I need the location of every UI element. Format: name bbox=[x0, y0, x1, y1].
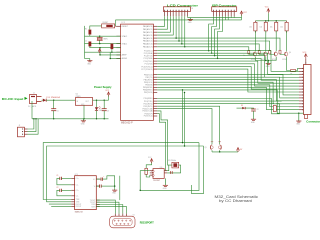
svg-text:Connector: Connector bbox=[306, 119, 320, 123]
junction PA7 staircase bbox=[184, 46, 185, 47]
transistor Q1 bbox=[253, 52, 256, 55]
wire C3 to gnd rail bbox=[103, 111, 105, 119]
svg-text:MEGA32-P: MEGA32-P bbox=[121, 121, 133, 124]
svg-text:78M05: 78M05 bbox=[75, 96, 80, 98]
connector SV2 pin 2 bbox=[216, 10, 217, 11]
IC1 right pin stub PA4(ADC4) bbox=[153, 37, 157, 39]
svg-text:PC3(TMS): PC3(TMS) bbox=[144, 58, 153, 60]
svg-text:DC-DC Input: DC-DC Input bbox=[2, 97, 24, 101]
junction rail col2 bbox=[275, 20, 276, 21]
IC1 right pin stub PC2(TCK) bbox=[153, 55, 157, 57]
wire regulator output bbox=[93, 99, 109, 101]
power VCC arrow near crystal bbox=[98, 49, 101, 52]
wire AGND row bbox=[85, 51, 121, 53]
wire input into base resistor Q2 bbox=[269, 49, 271, 52]
capacitor C8 plates bbox=[251, 108, 256, 110]
wire bus row 13 to card pin15 bbox=[157, 87, 299, 109]
svg-text:PB7(SCK): PB7(SCK) bbox=[144, 92, 153, 94]
svg-text:PA7(ADC7): PA7(ADC7) bbox=[143, 46, 153, 49]
connector J2 pin 3 bbox=[22, 134, 23, 135]
svg-text:C8: C8 bbox=[257, 109, 259, 111]
wire bus row 6 to card pin8 bbox=[157, 67, 299, 89]
wire cap to gnd bbox=[253, 111, 255, 117]
wire XTAL rail A bbox=[85, 35, 121, 37]
svg-text:XTAL1: XTAL1 bbox=[122, 42, 128, 45]
DC input arrowhead bbox=[25, 97, 28, 100]
connector J4 pin 5 bbox=[299, 79, 304, 81]
wire R3 to AREF row bbox=[90, 46, 121, 48]
IC3 right pin V+ bbox=[96, 178, 99, 180]
junction crystal rail A bbox=[99, 35, 100, 36]
svg-text:PC7(TOSC2): PC7(TOSC2) bbox=[141, 69, 153, 71]
wire input cap to gnd rail bbox=[53, 111, 55, 119]
wire PD5 to RTC crystal node bbox=[157, 111, 169, 165]
junction J2 rail b bbox=[35, 118, 36, 119]
connector J4 pin 9 bbox=[299, 91, 304, 93]
wire LCD pin8 to PA7 bbox=[157, 16, 185, 47]
junction PA5 staircase bbox=[178, 40, 179, 41]
wire bus row 12 to card pin14 bbox=[157, 85, 299, 107]
svg-text:PA4(ADC4): PA4(ADC4) bbox=[143, 37, 153, 40]
svg-text:C2+: C2+ bbox=[76, 190, 79, 192]
wire long pair to MAX232 T2IN bbox=[47, 146, 204, 202]
svg-text:AREF: AREF bbox=[122, 54, 128, 57]
wire vertical to RTC rail bbox=[140, 143, 199, 191]
connector X1 DB9 pin 9 bbox=[128, 223, 129, 224]
connector SV1 pin 5 bbox=[176, 10, 177, 11]
resistor base R21 bbox=[258, 50, 260, 54]
svg-text:PA0(ADC0): PA0(ADC0) bbox=[143, 25, 153, 28]
junction ISP pin1 row bbox=[208, 50, 209, 51]
svg-text:32.768kHz: 32.768kHz bbox=[168, 160, 176, 162]
wire bus row 7 to card pin9 bbox=[157, 69, 299, 92]
junction emitter rail1 bbox=[265, 60, 266, 61]
svg-text:R2OUT: R2OUT bbox=[76, 206, 82, 208]
wire base R20 to base bbox=[249, 53, 254, 56]
wire ISP pin2 to PC1 row bbox=[212, 16, 217, 53]
connector J4 pin 10 bbox=[299, 94, 304, 96]
resistor R3 bbox=[89, 42, 92, 47]
IC1 right pin stub PD0(RXD) bbox=[153, 98, 157, 100]
svg-text:IC4: IC4 bbox=[160, 167, 163, 169]
wire bus row 10 to card pin12 bbox=[157, 80, 299, 101]
IC1 left pin stub y43.6 bbox=[116, 43, 120, 45]
wire left bus to gnd bbox=[85, 58, 90, 60]
connector SV1 LCD body bbox=[163, 7, 190, 12]
wire jack to diode bbox=[42, 99, 43, 101]
IC1 right pin stub PB1(T1) bbox=[153, 76, 157, 78]
wire LED to gnd rail bbox=[96, 111, 98, 119]
IC3 left pin R2OUT bbox=[71, 205, 74, 207]
connector X1 DB9 pin 1 bbox=[114, 220, 115, 221]
wire t-pair rail bbox=[212, 151, 238, 153]
wire base R22 to base bbox=[270, 53, 275, 56]
diode D2 bbox=[242, 107, 245, 109]
power VCC arrow RTC bbox=[150, 159, 153, 162]
junction J2 rail a bbox=[33, 118, 34, 119]
connector X1 DB9 pin 6 bbox=[116, 223, 117, 224]
power VCC arrow card connector bbox=[304, 54, 307, 57]
junction pair tap2 bbox=[184, 145, 185, 146]
svg-text:C1: C1 bbox=[56, 175, 58, 177]
wire XTAL rail B bbox=[85, 43, 121, 45]
junction LED bbox=[96, 99, 97, 100]
wire emitter rail to gnd bbox=[267, 61, 269, 63]
connector J4 pin 13 bbox=[299, 103, 304, 105]
svg-text:PC2(TCK): PC2(TCK) bbox=[144, 55, 153, 57]
connector J4 pin 2 bbox=[299, 70, 304, 72]
wire C1 to C1- pin bbox=[57, 178, 71, 184]
capacitor C1 plates bbox=[59, 177, 61, 180]
junction input cap bbox=[53, 99, 54, 100]
ground symbol left bus bbox=[89, 59, 91, 61]
IC1 right pin stub PA2(ADC2) bbox=[153, 31, 157, 33]
wire to VCC arrow right of ISP bbox=[241, 15, 243, 20]
ground symbol power supply bbox=[82, 119, 84, 121]
connector SV1 pin 4 bbox=[173, 10, 174, 11]
transistor Q3 bbox=[274, 52, 277, 55]
transistor Q2 bbox=[264, 52, 267, 55]
resistor R10 pullup bbox=[254, 22, 257, 31]
connector SV2 pin 6 bbox=[228, 10, 229, 11]
IC1 right pin stub PD6(ICP) bbox=[153, 113, 157, 115]
svg-text:AGND: AGND bbox=[122, 57, 128, 60]
wire C1 to C1+ pin bbox=[61, 177, 71, 179]
transistor Q6 bbox=[219, 146, 222, 149]
wire T1OUT to DB9 bbox=[96, 200, 115, 214]
resistor R13 top stub bbox=[286, 21, 288, 23]
wire C2 to C2+ pin bbox=[61, 189, 71, 191]
IC4 right pin y170.7 bbox=[164, 170, 167, 172]
junction gnd rail x53.7 bbox=[53, 118, 54, 119]
ground symbol MAX232 bbox=[114, 188, 116, 190]
IC1 right pin stub PA5(ADC5) bbox=[153, 40, 157, 42]
crystal Q1 plates bbox=[97, 37, 103, 39]
connector SV2 ISP body bbox=[212, 7, 237, 12]
connector SV1 pin 1 bbox=[164, 10, 165, 11]
wire C6a to gnd bbox=[101, 185, 115, 187]
svg-text:C2: C2 bbox=[85, 40, 87, 42]
wire AVCC row bbox=[100, 54, 121, 56]
resistor R10 bottom stub bbox=[254, 31, 256, 33]
svg-text:C2-: C2- bbox=[76, 196, 79, 198]
wire X2 right to RTC bbox=[167, 165, 181, 173]
svg-text:1k: 1k bbox=[243, 55, 245, 57]
svg-text:RS232PORT: RS232PORT bbox=[140, 220, 154, 224]
svg-text:J1: J1 bbox=[33, 93, 35, 95]
resistor base R23 bbox=[279, 50, 281, 54]
connector SV2 pin 4 bbox=[222, 10, 223, 11]
svg-text:IC3: IC3 bbox=[75, 174, 78, 176]
capacitor filter C7 bbox=[273, 106, 276, 112]
crystal X2 body bbox=[172, 162, 179, 168]
svg-text:16: 16 bbox=[191, 8, 193, 10]
connector SV1 pin 6 bbox=[178, 10, 179, 11]
IC3 right pin V- bbox=[96, 185, 99, 187]
wire J2 pin3 up bbox=[28, 119, 39, 134]
svg-text:DC_JACK: DC_JACK bbox=[28, 105, 37, 108]
wire ISP pin7 drop bbox=[230, 16, 232, 17]
IC4 notch scallops bbox=[152, 170, 154, 172]
wire input into base resistor Q4 bbox=[248, 49, 250, 52]
wire PB7 tap down bbox=[184, 93, 186, 147]
junction gnd rail x104.2 bbox=[103, 118, 104, 119]
svg-text:PA6(ADC6): PA6(ADC6) bbox=[143, 43, 153, 46]
junction ISP pin4 row bbox=[217, 58, 218, 59]
resistor R13 pullup bbox=[285, 22, 288, 31]
connector SV1 pin 7 bbox=[181, 10, 182, 11]
IC1 right pin stub PA1(ADC1) bbox=[153, 28, 157, 30]
svg-text:R2: R2 bbox=[85, 29, 87, 31]
IC1 right pin stub PD4(OC1B) bbox=[153, 108, 157, 110]
wire Q emitter drop x276.2 bbox=[275, 57, 277, 61]
connector J4 pin 1 bbox=[299, 67, 304, 69]
IC1 right pin stub PB4(SS) bbox=[153, 84, 157, 86]
wire PA4 extension to transistor block bbox=[176, 38, 280, 50]
svg-text:10k: 10k bbox=[270, 27, 273, 29]
IC1 right pin stub PB3(OC0) bbox=[153, 81, 157, 83]
junction gnd rail x84.0 bbox=[83, 118, 84, 119]
wire VCC rail above IC1 bbox=[116, 19, 242, 21]
IC1 right pin stub PC6(TOSC1) bbox=[153, 66, 157, 68]
svg-text:+: + bbox=[103, 176, 104, 178]
wire long pair to MAX232 T1IN bbox=[43, 143, 199, 200]
wire left bus bbox=[84, 26, 86, 59]
wire VCC stub to card connector bbox=[305, 58, 307, 64]
wire PD4 to Q5 bbox=[157, 109, 212, 145]
connector X1 DB9 pin 5 bbox=[130, 220, 131, 221]
resistor R2 (reset pullup) bbox=[89, 30, 92, 35]
resistor card pullup bbox=[291, 70, 296, 72]
wire to input cap bbox=[53, 100, 55, 109]
svg-text:DS1307: DS1307 bbox=[153, 180, 160, 182]
wire Q5 emitter bbox=[211, 150, 213, 152]
wire R12 to Q3 collector bbox=[275, 31, 277, 51]
wire X2 left to RTC bbox=[167, 165, 172, 171]
svg-text:D2: D2 bbox=[241, 105, 243, 107]
IC4 left pin y172.9 bbox=[150, 172, 153, 174]
wire VCC rail drop to reset bbox=[115, 20, 117, 26]
resistor R5 RTC pullup bbox=[145, 168, 148, 174]
wire diode to regulator bbox=[46, 99, 75, 101]
wire pullup to card pin1 bbox=[296, 68, 299, 70]
IC1 right pin stub PB2(INT2) bbox=[153, 79, 157, 81]
power VCC arrow transistor block bbox=[267, 9, 270, 12]
svg-text:10k: 10k bbox=[280, 27, 283, 29]
wire ISP pin6 drop bbox=[227, 16, 229, 20]
IC1 right pin stub PB0(XCK) bbox=[153, 74, 157, 76]
svg-text:D1 1N4004: D1 1N4004 bbox=[47, 97, 62, 99]
svg-text:RESET: RESET bbox=[122, 26, 129, 28]
wire LCD pin3 to PA2 bbox=[157, 16, 170, 32]
wire VCC to pullup rail bbox=[267, 13, 269, 21]
capacitor C6a plates bbox=[99, 185, 101, 188]
IC1 right pin stub PC3(TMS) bbox=[153, 57, 157, 59]
connector SV1 pin 9 bbox=[187, 10, 188, 11]
junction PB7 tap bbox=[184, 92, 185, 93]
wire crystal top bbox=[99, 36, 101, 37]
wire output to VCC bbox=[108, 95, 110, 100]
wire V- to C6cap bbox=[96, 185, 99, 187]
wire PB6 tap down bbox=[182, 90, 184, 143]
IC1 right pin stub PD1(TXD) bbox=[153, 100, 157, 102]
wire R5 to SDA bbox=[146, 174, 150, 177]
ground symbol card connector bbox=[298, 113, 300, 121]
resistor R13 bottom stub bbox=[286, 31, 288, 33]
wire PD3 to Q6 bbox=[157, 106, 220, 144]
svg-text:Q4: Q4 bbox=[289, 52, 291, 54]
wire LCD pin1 to PA0 bbox=[157, 16, 164, 26]
transistor Q5 bbox=[210, 146, 213, 149]
junction R4 row bbox=[111, 51, 112, 52]
svg-text:C5: C5 bbox=[57, 111, 59, 113]
wire reset box to left column bbox=[90, 26, 102, 30]
wire PB6 to card gnd line bbox=[157, 90, 303, 113]
wire R2 to XTAL rail A bbox=[89, 34, 91, 36]
svg-text:10k: 10k bbox=[249, 27, 252, 29]
IC4 left pin y170.7 bbox=[150, 170, 153, 172]
voltage regulator IC2 body bbox=[75, 98, 92, 106]
wire base R23 to base bbox=[280, 53, 285, 56]
wire PD1 right bbox=[157, 100, 281, 102]
wire LCD pin2 to PA1 bbox=[157, 16, 167, 29]
wire C2 to C2- pin bbox=[57, 190, 71, 196]
IC3 right pin R2IN bbox=[96, 206, 99, 208]
wire J2 pin1 up bbox=[28, 119, 34, 129]
junction ISP pin3 row bbox=[214, 55, 215, 56]
reset component R1 box bbox=[102, 24, 115, 28]
svg-text:PA2(ADC2): PA2(ADC2) bbox=[143, 31, 153, 34]
wire VCC to R5 bbox=[146, 162, 151, 168]
IC3 right pin T1OUT bbox=[96, 199, 99, 201]
IC3 left pin C2+ bbox=[71, 189, 74, 191]
IC1 left pin stub y52.2 bbox=[116, 51, 120, 53]
ground symbol transistor block bbox=[267, 61, 269, 64]
wire vertical to RTC right bbox=[192, 146, 204, 194]
connector SV2 pin 8 bbox=[234, 10, 235, 11]
svg-text:J2: J2 bbox=[19, 125, 21, 127]
svg-text:BC547: BC547 bbox=[282, 59, 286, 61]
wire R10 to Q1 collector bbox=[254, 31, 256, 51]
resistor base R20 bbox=[248, 50, 250, 54]
wire diode cluster left bbox=[237, 107, 243, 109]
connector J4 pin 14 bbox=[299, 106, 304, 108]
junction emitter rail2 bbox=[268, 60, 269, 61]
connector J2 body bbox=[18, 127, 25, 137]
IC3 left pin T1IN bbox=[71, 199, 74, 201]
resistor R12 bottom stub bbox=[275, 31, 277, 33]
svg-text:1k: 1k bbox=[253, 55, 255, 57]
connector SV2 pin 7 bbox=[231, 10, 232, 11]
IC1 right pin stub PD3(INT1) bbox=[153, 105, 157, 107]
power VCC arrow right of ISP bbox=[240, 11, 243, 14]
junction t-pair rail bbox=[219, 151, 220, 152]
IC1 left pin stub y58.5 bbox=[116, 58, 120, 60]
IC1 right pin stub PC0(SCL) bbox=[153, 50, 157, 52]
junction PA6 staircase bbox=[181, 43, 182, 44]
junction gnd rail x96.5 bbox=[96, 118, 97, 119]
IC3 left pin R1OUT bbox=[71, 203, 74, 205]
connector J4 pin 12 bbox=[299, 100, 304, 102]
connector J4 pin 4 bbox=[299, 76, 304, 78]
wire diode to cap bbox=[245, 107, 253, 110]
wire jack return bbox=[31, 101, 33, 119]
capacitor C2 plates bbox=[59, 189, 61, 192]
svg-text:C2: C2 bbox=[56, 187, 58, 189]
resistor R10 top stub bbox=[254, 21, 256, 23]
junction rail col1 bbox=[265, 20, 266, 21]
resistor R11 bottom stub bbox=[265, 31, 267, 33]
svg-text:X1: X1 bbox=[133, 214, 135, 216]
IC3 left pin C2- bbox=[71, 195, 74, 197]
wire R4 bottom to pin row bbox=[111, 49, 113, 52]
wire regulator gnd bbox=[83, 105, 85, 119]
wire LCD pin6 to PA5 bbox=[157, 16, 179, 41]
capacitor C5 plates bbox=[51, 108, 56, 110]
connector X1 DB9 pin 4 bbox=[126, 220, 127, 221]
IC1 right pin stub PD5(OC1A) bbox=[153, 110, 157, 112]
IC3 MAX232 body bbox=[75, 176, 97, 210]
wire AGND2 drop bbox=[109, 52, 111, 58]
connector J2 pin 2 bbox=[22, 131, 23, 132]
IC4 left pin y175.1 bbox=[150, 174, 153, 176]
svg-text:PC5(TDI): PC5(TDI) bbox=[145, 64, 153, 66]
wire PA5 extension to transistor block bbox=[179, 41, 270, 50]
connector SV1 pin 3 bbox=[170, 10, 171, 11]
wire PA7 extension to transistor block bbox=[185, 47, 249, 51]
IC1 right pin stub PA3(ADC3) bbox=[153, 34, 157, 36]
ground symbol below LCD connector bbox=[189, 18, 191, 20]
power VCC arrow t-pair bbox=[237, 148, 240, 151]
IC1 right pin stub PA7(ADC7) bbox=[153, 46, 157, 48]
IC1 left pin stub y36.2 bbox=[116, 35, 120, 37]
connector X1 DB9 body bbox=[110, 216, 135, 228]
resistor R12 top stub bbox=[275, 21, 277, 23]
crystal Q1 body bbox=[97, 38, 102, 40]
junction max gnd bbox=[114, 185, 115, 186]
svg-text:8MHz: 8MHz bbox=[104, 39, 108, 41]
svg-text:C1+: C1+ bbox=[76, 178, 79, 180]
junction crystal rail B bbox=[99, 43, 100, 44]
wire R2IN to DB9 bbox=[96, 207, 126, 214]
connector X1 DB9 pin 3 bbox=[122, 220, 123, 221]
wire J2 pin2 up bbox=[28, 119, 37, 132]
wire Q4 emitter to pullup R cluster bbox=[287, 57, 291, 71]
wire Q6 emitter bbox=[219, 150, 221, 152]
wire R11 to Q2 collector bbox=[265, 31, 267, 51]
svg-text:10k: 10k bbox=[260, 27, 263, 29]
junction PB6 tap bbox=[182, 89, 183, 90]
wire PD6 to RTC right pin bbox=[157, 114, 167, 171]
resistor R11 pullup bbox=[264, 22, 267, 31]
junction RTC rail bbox=[139, 190, 140, 191]
transistor Q4 bbox=[285, 52, 288, 55]
wire bus row 4 to card pin6 bbox=[157, 61, 299, 83]
wire gnd rail bbox=[32, 118, 109, 120]
IC1 left pin stub y26.3 bbox=[116, 25, 120, 27]
extra vertical near MAX232 bbox=[119, 176, 121, 200]
capacitor C3 plates bbox=[102, 108, 107, 110]
resistor base R22 bbox=[269, 50, 271, 54]
wire R1IN to DB9 bbox=[96, 205, 123, 214]
crystal X2 inner bbox=[173, 163, 177, 167]
wire PD0 to filter loop bbox=[157, 99, 279, 114]
connector J4 MMC card body bbox=[304, 65, 312, 115]
svg-text:C3: C3 bbox=[107, 111, 109, 113]
connector J2 pin 1 bbox=[22, 128, 23, 129]
svg-text:by CC Dharmani: by CC Dharmani bbox=[219, 199, 252, 203]
wire bus row 3 to card pin5 bbox=[157, 58, 299, 80]
